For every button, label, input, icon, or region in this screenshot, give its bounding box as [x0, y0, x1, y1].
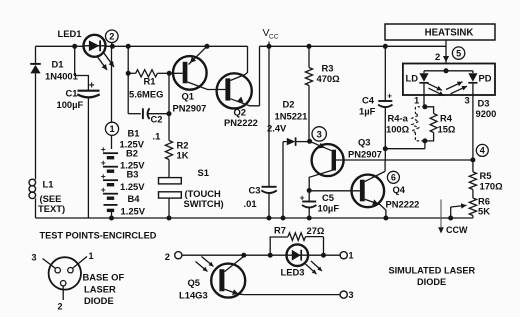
battery B1: [101, 144, 118, 158]
node D2 bottom: [281, 216, 286, 221]
wire bottom ground rail: [36, 217, 473, 219]
label L1: [43, 179, 54, 190]
label R3: [322, 63, 334, 74]
label C5 value: [318, 203, 340, 214]
label S1: [198, 167, 209, 178]
label B4 value: [121, 206, 146, 217]
terminal 3: [340, 291, 347, 298]
wire C1 branch: [75, 46, 89, 90]
svg-text:1.25V: 1.25V: [120, 181, 145, 192]
label PD: [479, 73, 492, 84]
svg-text:C2: C2: [151, 114, 163, 125]
svg-text:D1: D1: [52, 59, 64, 70]
label B1 value: [120, 139, 145, 150]
test point 5: [452, 47, 464, 59]
wire top rail right segment (Vcc): [260, 45, 447, 47]
heatsink box: [385, 24, 495, 40]
svg-text:B2: B2: [126, 148, 138, 159]
label R5 value: [480, 181, 504, 192]
label R6 value: [478, 206, 490, 217]
node C1 top: [72, 44, 77, 49]
label Q2 value: [224, 117, 258, 128]
svg-text:1µF: 1µF: [359, 106, 376, 117]
transistor Q1: [169, 46, 225, 89]
svg-text:LD: LD: [406, 73, 419, 84]
node Q1 emitter rail: [205, 44, 210, 49]
wire D3 pin 1 lead: [423, 95, 425, 107]
label R7 value: [307, 225, 325, 236]
label Vcc: [263, 27, 279, 46]
svg-text:Q1: Q1: [182, 91, 195, 102]
svg-text:5: 5: [456, 48, 461, 58]
wire Q5 emitter to terminal 3: [244, 294, 340, 296]
svg-text:PN2222: PN2222: [386, 199, 420, 210]
svg-text:1: 1: [349, 251, 354, 261]
label TEST POINTS-ENCIRCLED: [40, 231, 157, 241]
resistor R4-a (dashed): [412, 107, 425, 141]
svg-text:LASER: LASER: [84, 284, 116, 295]
svg-text:100µF: 100µF: [57, 99, 84, 110]
svg-text:Q5: Q5: [188, 277, 201, 288]
connector base of laser diode circle: [49, 257, 81, 289]
svg-text:Q2: Q2: [234, 107, 247, 118]
svg-text:2: 2: [109, 32, 114, 42]
label C5: [322, 192, 334, 203]
label pin 3: [465, 95, 470, 106]
node R2 bottom rail: [167, 216, 172, 221]
label B4: [128, 193, 141, 204]
svg-text:2: 2: [165, 251, 170, 262]
switch S1 plates: [159, 178, 182, 218]
label R6: [478, 196, 490, 207]
connector pin 3 lead: [43, 259, 56, 269]
transistor Q5: [211, 257, 245, 298]
battery bottom plate: [104, 205, 118, 218]
wire heatsink to D3 pin 2: [443, 40, 449, 64]
battery B4: [101, 185, 118, 199]
capacitor C1: [77, 80, 99, 218]
svg-text:2.4V: 2.4V: [267, 123, 287, 134]
label B2 value: [120, 160, 145, 171]
wire D3 internal anode bus: [424, 68, 473, 73]
connector pin 2 lead: [62, 286, 64, 300]
svg-text:1N4001: 1N4001: [45, 71, 78, 82]
svg-text:R4-a: R4-a: [388, 113, 409, 124]
svg-text:+: +: [300, 194, 305, 203]
svg-text:3: 3: [465, 95, 470, 106]
svg-text:B3: B3: [127, 169, 139, 180]
terminal 1: [340, 252, 347, 259]
resistor R5: [469, 160, 476, 198]
label B1: [128, 128, 140, 139]
svg-text:D2: D2: [283, 99, 295, 110]
ccw arrow: [438, 200, 444, 234]
led LED1 emission arrows: [97, 53, 115, 71]
label C3 value: [244, 198, 257, 209]
test point 3: [312, 127, 326, 141]
node Q3 collector junction: [307, 188, 312, 193]
led LED1: [84, 35, 106, 57]
label D2 voltage: [267, 123, 287, 134]
svg-text:1: 1: [89, 251, 94, 261]
label Q2: [234, 107, 247, 118]
svg-text:2: 2: [435, 51, 440, 62]
wire R1 branch: [127, 46, 129, 113]
svg-text:R4: R4: [440, 113, 453, 124]
label LED3: [281, 267, 305, 278]
label LD: [406, 73, 419, 84]
led LED3: [287, 244, 309, 266]
svg-text:.1: .1: [153, 131, 161, 142]
svg-text:PN2222: PN2222: [224, 117, 258, 128]
svg-text:9200: 9200: [476, 108, 497, 119]
label D3: [478, 98, 490, 109]
label Q4 value: [386, 199, 420, 210]
svg-text:C1: C1: [66, 88, 78, 99]
led LD emission arrows: [427, 83, 445, 96]
label BASE OF: [83, 272, 125, 283]
node battery bottom: [109, 216, 114, 221]
wire Q1 base to R2: [168, 73, 170, 140]
svg-text:1K: 1K: [177, 150, 189, 161]
label D1 value: [45, 71, 78, 82]
svg-text:5K: 5K: [478, 206, 490, 217]
wire R4 bottom to C4 node: [424, 141, 426, 149]
photodiode PD symbol: [468, 73, 477, 95]
label S1 note1: [185, 188, 222, 199]
capacitor C3: [261, 187, 277, 218]
phototransistor Q5 incident arrows: [196, 257, 214, 272]
test point 6: [387, 171, 399, 183]
label LASER: [84, 284, 116, 295]
svg-text:27Ω: 27Ω: [307, 225, 325, 236]
svg-text:3: 3: [349, 290, 354, 300]
label C1 value: [57, 99, 84, 110]
node right rail junction: [470, 157, 475, 162]
label LED1: [58, 28, 82, 39]
label R1: [144, 76, 156, 87]
laser diode LD symbol: [419, 73, 428, 95]
label D1: [52, 59, 64, 70]
svg-text:CC: CC: [269, 34, 279, 41]
label Q3: [358, 137, 371, 148]
wire Vcc drop to C3: [268, 46, 270, 186]
svg-text:+: +: [387, 92, 392, 101]
svg-text:PN2907: PN2907: [348, 149, 382, 160]
node C2 right: [167, 111, 172, 116]
svg-text:C5: C5: [322, 192, 334, 203]
label C2: [151, 114, 163, 125]
label Q3 value: [348, 149, 382, 160]
node R3 top: [307, 44, 312, 49]
capacitor C2: [128, 108, 169, 119]
svg-text:Q4: Q4: [393, 184, 406, 195]
label C1: [66, 88, 78, 99]
wire Q4 base: [309, 190, 360, 192]
svg-text:6: 6: [391, 173, 396, 183]
diode D1: [30, 64, 41, 180]
test point 2: [106, 30, 119, 46]
node Q1 base junction: [167, 71, 172, 76]
transistor Q4: [352, 160, 386, 218]
svg-text:3: 3: [32, 253, 37, 263]
svg-text:C3: C3: [249, 185, 261, 196]
svg-text:+: +: [89, 80, 95, 91]
label pin 1: [414, 95, 419, 106]
inductor L1: [29, 179, 36, 218]
resistor R7: [270, 233, 323, 255]
label R3 value: [317, 73, 341, 84]
label S1 note2: [184, 198, 224, 209]
svg-text:470Ω: 470Ω: [317, 73, 341, 84]
svg-text:R7: R7: [274, 225, 286, 236]
svg-text:SWITCH): SWITCH): [184, 198, 224, 209]
svg-text:LED3: LED3: [281, 267, 305, 278]
label R4 value: [438, 124, 456, 135]
wire left branch vertical (D1/L1 branch): [35, 46, 37, 64]
label R1 value: [129, 89, 163, 100]
svg-text:PN2907: PN2907: [173, 103, 207, 114]
label terminal 3: [349, 290, 354, 300]
label DIODE: [84, 295, 114, 306]
wire LED3 main line: [182, 254, 340, 256]
terminal 2: [175, 252, 182, 259]
node R4 top: [422, 104, 427, 109]
label C3: [249, 185, 261, 196]
transistor Q2: [217, 46, 260, 108]
svg-text:.01: .01: [244, 198, 257, 209]
label connector pin 2: [58, 302, 63, 312]
node Q4 emitter bottom: [383, 216, 388, 221]
svg-text:10µF: 10µF: [318, 203, 340, 214]
wire battery branch top: [111, 46, 113, 149]
svg-text:S1: S1: [198, 167, 209, 178]
svg-text:BASE OF: BASE OF: [83, 272, 125, 283]
svg-text:C4: C4: [362, 95, 375, 106]
node C4 top: [383, 44, 388, 49]
label B3 value: [120, 181, 145, 192]
label R7: [274, 225, 286, 236]
label terminal 2: [165, 251, 170, 262]
svg-text:SIMULATED LASER: SIMULATED LASER: [389, 266, 476, 276]
svg-text:170Ω: 170Ω: [480, 181, 504, 192]
resistor R2: [165, 141, 172, 178]
node R1 left: [126, 71, 131, 76]
label B2: [126, 148, 138, 159]
label SIMULATED LASER: [389, 266, 476, 276]
svg-text:B4: B4: [128, 193, 141, 204]
label R2: [177, 140, 189, 151]
label connector pin 3: [32, 253, 37, 263]
node LED1 right: [110, 44, 115, 49]
label D3 value: [476, 108, 497, 119]
node Q3 emitter junction: [307, 139, 312, 144]
svg-text:R5: R5: [480, 170, 492, 181]
node Q5 collector top: [241, 253, 246, 258]
svg-text:1: 1: [109, 124, 114, 134]
svg-text:L1: L1: [43, 179, 54, 190]
transistor Q3: [309, 141, 473, 190]
svg-text:HEATSINK: HEATSINK: [425, 28, 474, 39]
svg-text:1N5221: 1N5221: [275, 111, 308, 122]
node R1 top: [126, 44, 131, 49]
label R5: [480, 170, 492, 181]
svg-text:B1: B1: [128, 128, 140, 139]
label D2 value: [275, 111, 308, 122]
node C3 bottom: [267, 216, 272, 221]
label CCW: [446, 225, 468, 235]
resistor R6 potentiometer: [469, 198, 476, 218]
wire C4 node to Q3 base line: [385, 149, 425, 160]
label C2 value: [153, 131, 161, 142]
test point 4: [476, 144, 488, 156]
battery B3: [101, 171, 118, 185]
battery B2: [101, 158, 118, 172]
resistor R1: [128, 70, 169, 77]
svg-text:5.6MEG: 5.6MEG: [129, 89, 163, 100]
label L1 note1: [40, 193, 62, 204]
svg-text:PD: PD: [479, 73, 492, 84]
test point 1: [105, 122, 118, 135]
svg-text:4: 4: [480, 146, 485, 156]
label terminal 1: [349, 251, 354, 261]
label C4 value: [359, 106, 376, 117]
node R6 wiper bottom: [448, 216, 453, 221]
svg-text:Q3: Q3: [358, 137, 371, 148]
svg-text:15Ω: 15Ω: [438, 124, 456, 135]
resistor R3: [305, 46, 312, 141]
module D3 box: [403, 64, 495, 96]
label R4-a: [388, 113, 409, 124]
label Q5 value: [179, 290, 208, 301]
label Q5: [188, 277, 201, 288]
node C4 bottom: [383, 146, 388, 151]
label D2: [283, 99, 295, 110]
label B3: [127, 169, 139, 180]
node R7 left: [268, 253, 273, 258]
connector pin 1 lead: [73, 257, 87, 269]
label L1 note2: [38, 203, 65, 214]
svg-text:2: 2: [58, 302, 63, 312]
led LED3 emission arrows: [306, 261, 323, 274]
label C4: [362, 95, 375, 106]
wire top rail left segment: [36, 45, 248, 47]
svg-text:TEXT): TEXT): [38, 203, 65, 214]
wire R6 wiper: [451, 203, 467, 218]
label Q1 value: [173, 103, 207, 114]
capacitor C4: [378, 46, 392, 148]
svg-text:100Ω: 100Ω: [386, 124, 410, 135]
node C5 bottom: [307, 216, 312, 221]
svg-text:TEST POINTS-ENCIRCLED: TEST POINTS-ENCIRCLED: [40, 231, 157, 241]
wire D3 pin 3 to right rail: [472, 95, 474, 160]
svg-text:1.25V: 1.25V: [121, 206, 146, 217]
diode D2 zener: [287, 137, 310, 146]
svg-text:1: 1: [414, 95, 419, 106]
svg-text:CCW: CCW: [446, 225, 468, 235]
label pin 2: [435, 51, 440, 62]
wire D2 anode branch: [283, 142, 287, 218]
resistor R4: [425, 107, 437, 141]
label connector pin 1: [89, 251, 94, 261]
svg-text:LED1: LED1: [58, 28, 82, 39]
label DIODE caption: [417, 277, 446, 287]
label Q1: [182, 91, 195, 102]
svg-text:3: 3: [317, 129, 322, 140]
svg-text:R3: R3: [322, 63, 334, 74]
svg-text:L14G3: L14G3: [179, 290, 208, 301]
transistor Q5 emitter arrow: [232, 289, 238, 295]
label R4-a value: [386, 124, 410, 135]
label R2 value: [177, 150, 189, 161]
capacitor C5: [300, 191, 317, 219]
label Q4: [393, 184, 406, 195]
photodiode PD incident arrows: [446, 82, 467, 94]
svg-text:DIODE: DIODE: [417, 277, 446, 287]
svg-text:D3: D3: [478, 98, 490, 109]
node R4 bottom: [422, 138, 427, 143]
svg-text:DIODE: DIODE: [84, 295, 114, 306]
node R7 right: [321, 253, 326, 258]
svg-text:R1: R1: [144, 76, 156, 87]
label R4: [440, 113, 453, 124]
node Vcc: [267, 44, 272, 49]
